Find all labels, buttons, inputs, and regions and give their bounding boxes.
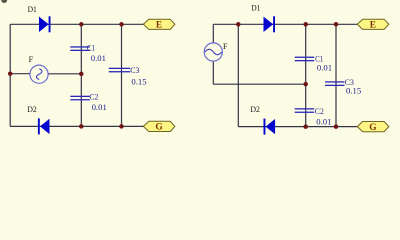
capacitor C2 <box>295 108 315 113</box>
svg-text:0.15: 0.15 <box>131 76 146 86</box>
wire: source right segment to mid node <box>48 73 81 75</box>
capacitor C2 <box>70 96 90 101</box>
wire: source top riser <box>212 24 214 43</box>
wire: bottom rail <box>238 126 357 128</box>
junction rail-F <box>8 71 13 76</box>
wire: left rail <box>9 24 11 126</box>
svg-text:E: E <box>156 21 162 31</box>
wire: source left segment <box>10 73 30 75</box>
svg-text:0.15: 0.15 <box>346 86 361 96</box>
port G <box>143 121 175 132</box>
junction bottom-C1C2 <box>303 124 308 129</box>
diode D2 <box>264 119 276 135</box>
svg-text:C3: C3 <box>130 65 139 75</box>
wire: source bottom riser <box>212 61 214 84</box>
junction top-C1 <box>303 22 308 27</box>
svg-text:D2: D2 <box>250 104 260 114</box>
svg-text:D1: D1 <box>28 4 37 14</box>
sheet background <box>0 0 400 146</box>
junction bottom-C3 <box>119 124 124 128</box>
wire: bottom rail <box>10 125 143 127</box>
port E <box>357 19 389 30</box>
junction top-C1 <box>79 22 84 27</box>
junction top-C3 <box>334 22 339 27</box>
grid origin marker <box>1 0 7 3</box>
capacitor C1 <box>70 46 90 51</box>
junction bottom-C3 <box>334 124 339 129</box>
svg-text:C1: C1 <box>87 43 95 53</box>
AC source F <box>204 43 222 61</box>
svg-text:E: E <box>370 21 376 31</box>
diode D1 <box>39 16 51 32</box>
wire: C3 branch <box>335 24 337 126</box>
svg-text:G: G <box>369 123 377 133</box>
port G <box>357 122 389 133</box>
svg-text:0.01: 0.01 <box>92 102 107 112</box>
junction mid-C1C2 <box>303 82 308 87</box>
wire: middle rail to mid node <box>213 83 305 85</box>
svg-text:F: F <box>223 42 228 51</box>
svg-text:0.01: 0.01 <box>317 63 332 73</box>
AC source F <box>30 65 48 83</box>
svg-text:0.01: 0.01 <box>91 53 106 63</box>
wire: top rail <box>213 23 357 25</box>
svg-text:C2: C2 <box>89 91 98 101</box>
junction top-C3 <box>119 22 124 27</box>
capacitor C1 <box>295 57 315 62</box>
port E <box>143 19 175 30</box>
junction top-AC <box>236 22 241 27</box>
svg-text:D2: D2 <box>27 104 37 114</box>
svg-text:0.01: 0.01 <box>316 116 331 126</box>
svg-text:D1: D1 <box>251 3 260 13</box>
wire: C1/C2 branch <box>305 24 307 126</box>
svg-text:G: G <box>155 123 163 133</box>
capacitor C3 <box>325 81 345 86</box>
wire: top rail <box>10 23 143 25</box>
wire: C1/C2 branch <box>80 24 82 126</box>
svg-text:F: F <box>29 55 34 64</box>
wire: C3 branch <box>121 24 123 126</box>
wire: AC input drop <box>237 24 239 126</box>
junction bottom-C1C2 <box>79 124 84 128</box>
capacitor C3 <box>109 68 131 73</box>
diode D1 <box>264 16 276 32</box>
diode D2 <box>38 118 50 134</box>
junction mid-C1C2 <box>79 72 84 77</box>
svg-text:C2: C2 <box>315 106 324 116</box>
